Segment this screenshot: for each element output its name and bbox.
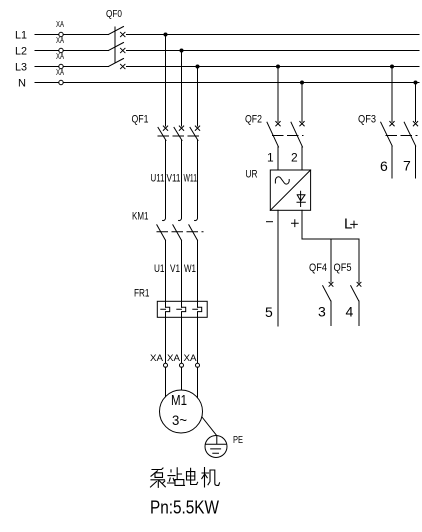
svg-text:W11: W11 <box>184 173 198 185</box>
svg-text:M1: M1 <box>171 392 187 409</box>
wire QF1 pole3 drop <box>197 67 199 127</box>
wire L+ to QF5 <box>358 239 360 282</box>
svg-text:V1: V1 <box>170 263 180 275</box>
svg-text:QF1: QF1 <box>132 113 149 125</box>
breaker QF0 pole L3 <box>109 59 126 69</box>
contactor KM1 linkage dashed <box>157 231 203 233</box>
motor M1 circle <box>160 390 203 433</box>
wire QF3 pole2 out <box>415 146 417 178</box>
breaker QF2 linkage dashed <box>273 135 304 137</box>
svg-text:U11: U11 <box>151 173 165 185</box>
UR diode symbol <box>297 191 305 206</box>
contactor KM1 pole3 <box>189 218 198 241</box>
svg-text:XA: XA <box>150 353 163 363</box>
label 电 <box>187 468 198 484</box>
breaker QF2 pole1 <box>267 122 280 148</box>
wire KM1 to FR1 pole1 <box>165 240 167 307</box>
svg-text:PE: PE <box>233 435 243 446</box>
label 泵 <box>151 468 166 487</box>
breaker QF0 pole L1 <box>109 27 126 37</box>
breaker QF5 <box>351 282 361 325</box>
svg-text:XA: XA <box>56 68 64 77</box>
breaker QF4 <box>323 282 333 325</box>
UR AC symbol <box>275 177 289 184</box>
junction dot L1/QF1 <box>164 33 168 37</box>
svg-text:XA: XA <box>56 36 64 45</box>
wire QF3 pole1 drop <box>391 67 393 122</box>
junction dot N/QF2 <box>300 81 304 85</box>
wire L1 bus <box>35 34 419 36</box>
wire XA to motor pole3 <box>197 367 199 397</box>
wire QF1 pole2 drop <box>181 51 183 127</box>
wire KM1 to FR1 pole3 <box>197 240 199 307</box>
wire N bus <box>35 82 419 84</box>
wire QF1 to KM1 pole1 <box>165 141 167 218</box>
svg-text:XA: XA <box>56 52 64 61</box>
svg-text:XA: XA <box>184 353 197 363</box>
minus output label <box>267 221 273 223</box>
junction dot L3/QF3 <box>390 65 394 69</box>
wire L3 bus <box>35 66 419 68</box>
svg-text:Pn:5.5KW: Pn:5.5KW <box>150 498 219 518</box>
breaker QF1 pole3 <box>190 126 200 141</box>
svg-text:3: 3 <box>318 304 326 320</box>
svg-text:QF4: QF4 <box>309 262 327 274</box>
svg-text:N: N <box>18 78 26 90</box>
wire XA to motor pole2 <box>181 367 183 390</box>
wire QF3 pole1 out <box>391 146 393 178</box>
junction dot L2/QF1 <box>180 49 184 53</box>
svg-text:QF5: QF5 <box>334 262 352 274</box>
svg-text:4: 4 <box>346 304 354 320</box>
svg-text:KM1: KM1 <box>132 211 149 223</box>
wire QF2 pole1 to UR <box>277 147 279 170</box>
FR1 element pole2 <box>177 307 186 363</box>
svg-text:6: 6 <box>380 158 388 174</box>
svg-text:QF3: QF3 <box>358 113 376 125</box>
breaker QF3 linkage dashed <box>386 135 417 137</box>
rectifier UR box <box>270 170 310 210</box>
svg-text:U1: U1 <box>154 263 165 275</box>
PE earth circle <box>205 436 227 458</box>
svg-text:3~: 3~ <box>172 412 187 428</box>
breaker QF2 pole2 <box>291 122 304 148</box>
svg-text:W1: W1 <box>184 263 196 275</box>
wire QF1 to KM1 pole2 <box>181 141 183 218</box>
FR1 element pole3 <box>193 307 202 363</box>
wire QF2 pole2 drop <box>301 83 303 122</box>
wire motor to PE <box>202 417 217 436</box>
wire XA to motor pole1 <box>165 367 167 397</box>
svg-text:7: 7 <box>403 158 411 174</box>
svg-text:L1: L1 <box>15 30 27 42</box>
svg-text:L3: L3 <box>15 62 27 74</box>
PE earth symbol <box>205 436 226 454</box>
FR1 element pole1 <box>161 307 170 363</box>
svg-text:XA: XA <box>56 20 64 29</box>
junction dot N/QF3 <box>414 81 418 85</box>
wire KM1 to FR1 pole2 <box>181 240 183 307</box>
svg-text:FR1: FR1 <box>134 288 150 300</box>
breaker QF3 pole1 <box>381 122 395 147</box>
junction dot L3/QF2 <box>276 65 280 69</box>
breaker QF0 pole L2 <box>109 43 126 53</box>
UR diagonal <box>270 170 310 210</box>
svg-text:5: 5 <box>265 304 273 320</box>
wire L2 bus <box>35 50 419 52</box>
thermal relay FR1 box <box>157 301 207 317</box>
wire QF3 pole2 drop <box>415 83 417 122</box>
svg-text:V11: V11 <box>167 173 181 185</box>
breaker QF1 pole1 <box>158 126 168 141</box>
label 机 <box>202 468 220 488</box>
label 站 <box>168 468 185 486</box>
contactor KM1 pole2 <box>173 218 182 241</box>
svg-text:XA: XA <box>167 353 180 363</box>
contactor KM1 pole1 <box>157 218 166 241</box>
wire L+ to QF4 <box>330 239 332 282</box>
svg-text:QF2: QF2 <box>245 113 262 125</box>
wire QF2 pole1 drop <box>277 67 279 122</box>
breaker QF1 pole2 <box>174 126 184 141</box>
svg-text:2: 2 <box>291 151 298 165</box>
wire UR minus down (node 5) <box>277 210 279 326</box>
breaker QF3 pole2 <box>404 122 418 147</box>
svg-text:L2: L2 <box>15 46 27 58</box>
wire QF1 to KM1 pole3 <box>197 141 199 218</box>
breaker QF0 linkage <box>114 27 116 63</box>
wire UR plus to L+ rail <box>302 210 359 239</box>
junction dot L3/QF1 <box>196 65 200 69</box>
svg-text:QF0: QF0 <box>106 8 122 20</box>
wire QF2 pole2 to UR <box>301 147 303 170</box>
svg-text:UR: UR <box>246 169 258 181</box>
breaker QF1 linkage dashed <box>158 135 203 137</box>
wire QF1 pole1 drop <box>165 35 167 127</box>
svg-text:1: 1 <box>267 151 274 165</box>
plus output label <box>292 220 299 227</box>
